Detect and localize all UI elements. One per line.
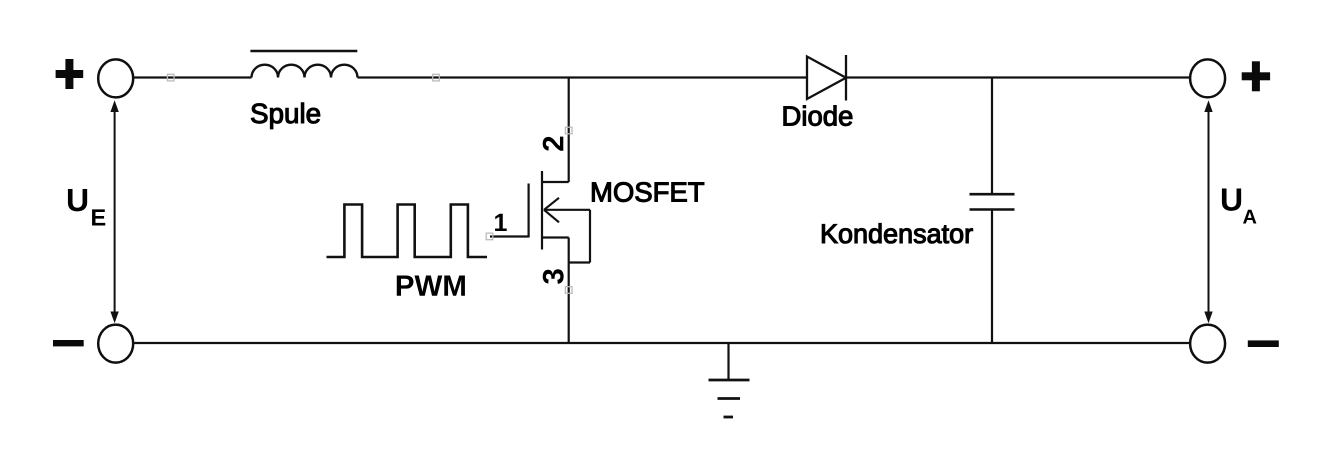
label MOSFET (592, 182, 704, 201)
label - (input negative) (53, 340, 84, 346)
inductor L1 (Spule) windings (252, 65, 358, 78)
label U_E (68, 189, 87, 211)
label + (output positive) (1242, 61, 1270, 91)
diode D1 cathode bar (845, 55, 847, 101)
node handle on drain lead (565, 127, 572, 134)
node handle on top rail left (167, 74, 174, 81)
wire: bottom rail (134, 342, 1189, 344)
wire: top rail, diode cathode to output + (846, 76, 1189, 78)
capacitor C1 bottom lead (991, 210, 993, 344)
capacitor C1 plates (970, 193, 1015, 196)
terminal circle output - (1190, 325, 1225, 363)
voltage arrow U_E (110, 100, 118, 323)
inductor L1 core line (250, 50, 357, 52)
pin label 2 (543, 137, 564, 151)
pin label 3 (543, 269, 564, 284)
wire: top rail, input + to inductor (134, 76, 251, 78)
transistor Q1 MOSFET symbol (490, 171, 590, 263)
node handle on source lead (565, 287, 572, 294)
label PWM (397, 276, 465, 296)
voltage arrow U_A (1204, 100, 1212, 323)
wire: MOSFET drain lead (pin 2) from top rail (568, 78, 570, 183)
label - (output negative) (1248, 340, 1279, 347)
wire: MOSFET source lead (pin 3) to bottom rail (568, 238, 570, 344)
node handle on top rail at MOSFET drain column (433, 74, 440, 81)
label Kondensator (822, 223, 972, 243)
label Diode (784, 106, 852, 126)
terminal circle output + (1190, 59, 1225, 97)
pin label 1 (495, 214, 507, 231)
diode D1 triangle (807, 57, 846, 100)
ground (709, 343, 750, 417)
PWM source waveform (327, 205, 488, 258)
label + (input positive) (56, 59, 84, 89)
node handle on gate lead (pin 1) (486, 233, 493, 240)
label U_A (1222, 188, 1241, 210)
capacitor C1 top lead (991, 78, 993, 194)
terminal circle input + (98, 59, 133, 97)
label Spule (251, 103, 320, 129)
wire: top rail, inductor to diode anode (358, 76, 808, 78)
terminal circle input - (98, 325, 133, 363)
